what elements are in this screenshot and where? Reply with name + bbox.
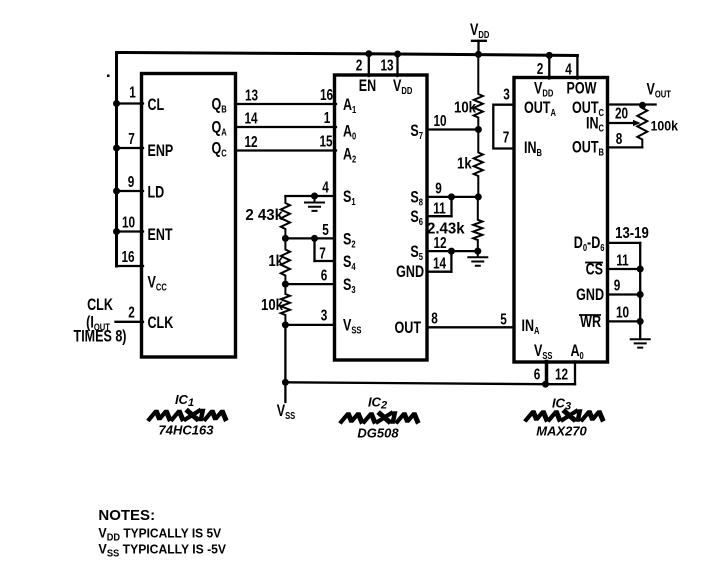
node dot rail at IC3 pin2	[546, 52, 553, 59]
label QA	[212, 119, 228, 138]
svg-text:15: 15	[319, 133, 332, 150]
pin number 3 (OUTA)	[503, 86, 510, 103]
svg-text:7: 7	[503, 129, 510, 146]
wire CS stub	[608, 268, 641, 270]
wire VDD top rail	[117, 53, 578, 56]
pin number 7 (INB)	[503, 129, 510, 146]
resistor 2.43k right	[473, 197, 482, 251]
pin number 6 (IC3 VSS)	[534, 366, 541, 383]
node dot rail at IC2 pin13	[394, 51, 401, 58]
terminal VOUT	[647, 81, 672, 100]
note VSS	[98, 542, 226, 560]
label VSS IC3	[534, 342, 553, 361]
resistor 10k right	[474, 55, 483, 130]
IC1 body 74HC163	[142, 74, 236, 358]
wire IC3 pin2 VDD stub	[548, 55, 550, 78]
wire IC2 pin7 box vertical	[313, 238, 315, 261]
wire IC1 pin7 ENP stub	[117, 147, 144, 149]
svg-text:CL: CL	[148, 96, 165, 114]
caption IC2	[368, 395, 387, 412]
notes heading	[98, 507, 155, 524]
svg-text:100k: 100k	[651, 118, 679, 134]
node dot S3 resistor junction	[282, 281, 289, 288]
svg-text:D0-D6: D0-D6	[574, 234, 605, 253]
label ENP	[148, 142, 174, 160]
wire IC2 S5 stub	[427, 250, 478, 252]
svg-text:7: 7	[128, 130, 135, 147]
svg-text:2.43k: 2.43k	[427, 220, 465, 237]
value 2.43k right	[427, 220, 465, 237]
pin number 1 (CL)	[129, 84, 136, 101]
label S6	[410, 208, 423, 227]
value 10k right	[454, 100, 477, 117]
caption IC3	[552, 396, 571, 413]
node dot S8 box junction	[448, 193, 455, 200]
svg-text:DG508: DG508	[357, 426, 399, 441]
svg-text:5: 5	[500, 311, 507, 328]
pin number 13 (QB left)	[245, 87, 258, 104]
svg-text:1k: 1k	[268, 253, 284, 270]
ground at right control bus	[630, 339, 651, 347]
wire right control bus	[639, 243, 641, 339]
pin number 9 (IC3 GND)	[614, 277, 621, 294]
pin number 9 (S8)	[435, 180, 442, 197]
wire IC2 pin11 box vertical	[450, 197, 452, 216]
pin number 10 (ENT)	[122, 214, 135, 231]
IC3 body MAX270	[514, 78, 608, 363]
wire IC3 pin6 VSS stub	[545, 362, 549, 385]
node dot rail at VDD terminal	[475, 51, 482, 58]
label VDD IC2	[393, 77, 413, 96]
node dot S8 resistor junction	[475, 193, 482, 200]
wire IC3 pin12 A0 box right vertical	[574, 362, 576, 385]
pin number 14 (IC2 GND)	[433, 255, 446, 272]
svg-text:2 43k: 2 43k	[245, 207, 283, 224]
svg-text:1: 1	[129, 84, 136, 101]
pin number 2 (IC3 VDD)	[537, 60, 544, 77]
svg-text:1: 1	[324, 109, 331, 126]
label INC	[586, 115, 605, 134]
ground below 2.43k right	[467, 251, 488, 266]
node dot S2 box junction	[311, 235, 318, 242]
wire IC1 pin16 VCC stub	[117, 265, 144, 267]
node dot LD bus	[113, 188, 120, 195]
label S8	[410, 189, 423, 208]
logo MAXIM IC1	[150, 411, 228, 419]
pin number 9 (LD)	[128, 173, 135, 190]
svg-text:12: 12	[244, 133, 257, 150]
svg-text:WR: WR	[580, 313, 601, 331]
svg-text:5: 5	[322, 221, 329, 238]
svg-text:4: 4	[322, 179, 329, 196]
label EN	[359, 77, 376, 95]
wire IC2 S2 stub	[285, 237, 334, 239]
wire IC2 pin13 VDD stub	[396, 54, 398, 76]
svg-text:CS: CS	[586, 261, 604, 279]
svg-text:GND: GND	[576, 286, 604, 304]
label S7	[410, 122, 423, 141]
label GND IC2	[396, 263, 424, 281]
wire WR stub	[608, 320, 641, 322]
node dot VSS rail at IC3 pin6	[542, 381, 549, 388]
value 10k left	[261, 297, 284, 314]
pin number 16 (VCC)	[121, 248, 134, 265]
wire OUT to INA	[427, 326, 514, 328]
wire VSS drop below resistors	[284, 325, 286, 402]
label CS with overline	[585, 261, 603, 279]
wire D0-D6 stub	[608, 242, 641, 244]
potentiometer wiper arrowhead	[633, 120, 641, 126]
label A1	[343, 96, 356, 115]
pin number 14 (QA left)	[244, 110, 257, 127]
node dot S1 ground junction	[311, 193, 318, 200]
wire IC2 S4 stub	[315, 260, 335, 262]
pin number 5 (S2)	[322, 221, 329, 238]
node dot VSS rail left	[282, 379, 289, 386]
wire IC2 S3 stub	[285, 283, 334, 285]
svg-text:14: 14	[244, 110, 257, 127]
label S4	[343, 253, 356, 272]
node dot S5 resistor junction	[474, 248, 481, 255]
label VSS IC2	[343, 317, 362, 336]
svg-text:EN: EN	[359, 77, 376, 95]
svg-text:13: 13	[245, 87, 258, 104]
pin number 10 (S7)	[433, 112, 446, 129]
svg-text:10k: 10k	[261, 297, 284, 314]
wire IC2 GND stub	[427, 271, 451, 273]
wire IC2 pin2 EN stub	[368, 54, 370, 76]
node dot bus at CS	[637, 266, 644, 273]
svg-text:13: 13	[380, 57, 393, 74]
label VCC	[148, 274, 168, 293]
caption 74HC163	[159, 423, 215, 438]
wire IC3 pin4 POW stub	[576, 56, 578, 79]
caption MAX270	[536, 424, 587, 439]
label OUTB	[572, 139, 604, 158]
speck	[107, 75, 110, 78]
svg-text:8: 8	[616, 130, 623, 147]
node dot S2 resistor junction	[282, 235, 289, 242]
wire IC1 pin10 ENT stub	[117, 230, 144, 232]
svg-text:10: 10	[616, 304, 629, 321]
pin numbers 13-19	[615, 225, 649, 242]
svg-text:10k: 10k	[454, 100, 477, 117]
pin number 4 (POW)	[565, 61, 572, 78]
svg-text:MAX270: MAX270	[536, 424, 587, 439]
node dot VSS resistor junction	[282, 321, 289, 328]
node dot OUTC pot junction	[639, 102, 646, 109]
node dot ENT bus	[113, 228, 120, 235]
svg-text:9: 9	[614, 277, 621, 294]
svg-text:3: 3	[503, 86, 510, 103]
pin number 8 (OUT)	[431, 310, 438, 327]
logo MAXIM IC2	[342, 414, 420, 422]
value 100k	[651, 118, 679, 134]
pin number 1 (A0 right)	[324, 109, 331, 126]
note VDD	[98, 526, 221, 544]
node dot bus at WR	[637, 318, 644, 325]
label GND IC3	[576, 286, 604, 304]
label CL	[148, 96, 165, 114]
svg-text:LD: LD	[148, 184, 165, 202]
value 1k right	[457, 156, 473, 173]
wire IC1 pin1 CL stub	[117, 102, 144, 104]
external CLK label	[74, 296, 127, 346]
pin number 11 (S6)	[433, 200, 446, 217]
pin number 2 (CLK)	[128, 304, 135, 321]
label A2	[343, 146, 356, 165]
svg-text:13-19: 13-19	[615, 225, 649, 242]
pin number 13 (IC2 VDD)	[380, 57, 393, 74]
svg-text:POW: POW	[567, 80, 597, 98]
IC2 body DG508	[335, 75, 428, 360]
wire INC to wiper	[608, 122, 635, 124]
wire IC2 S6 stub	[427, 215, 452, 217]
svg-text:2: 2	[128, 304, 135, 321]
value 2 43k left	[245, 207, 283, 224]
wire QC to A2	[236, 149, 337, 151]
label S2	[343, 231, 356, 250]
pin number 3 (IC2 VSS)	[321, 307, 328, 324]
svg-text:8: 8	[431, 310, 438, 327]
svg-text:4: 4	[565, 61, 572, 78]
wire IC2 pin14 box vertical	[450, 251, 452, 272]
wire QA to A0	[236, 126, 337, 128]
label OUTA	[524, 99, 556, 118]
label S5	[410, 243, 423, 262]
svg-text:1k: 1k	[457, 156, 473, 173]
svg-text:11: 11	[616, 252, 629, 269]
wire IC3 OUTA-INB bracket	[493, 105, 514, 149]
pin number 8 (OUTB)	[616, 130, 623, 147]
pin number 12 (A0 bottom)	[555, 366, 568, 383]
wire IC2 S7 stub	[427, 128, 479, 130]
svg-text:CLK: CLK	[148, 314, 174, 332]
wire GND stub	[608, 293, 641, 295]
pin number 5 (INA)	[500, 311, 507, 328]
label CLK inside	[148, 314, 174, 332]
wire OUTC output	[608, 103, 656, 105]
svg-text:12: 12	[555, 366, 568, 383]
svg-text:74HC163: 74HC163	[159, 423, 215, 438]
label POW	[567, 80, 597, 98]
label S3	[343, 276, 356, 295]
wire VDD terminal lead	[477, 41, 479, 55]
svg-text:ENP: ENP	[148, 142, 174, 160]
pin number 4 (S1)	[322, 179, 329, 196]
pin number 7 (ENP)	[128, 130, 135, 147]
caption IC1	[175, 392, 194, 409]
svg-text:2: 2	[356, 57, 363, 74]
value 1k left	[268, 253, 284, 270]
svg-text:10: 10	[433, 112, 446, 129]
label VDD IC3	[534, 80, 554, 99]
resistor 2.43k left	[281, 196, 290, 238]
wire QB to A1	[236, 103, 337, 105]
label A0 IC3	[571, 342, 584, 361]
svg-text:10: 10	[122, 214, 135, 231]
svg-text:6: 6	[321, 267, 328, 284]
svg-text:CLK: CLK	[87, 296, 113, 314]
pin number 10 (WR)	[616, 304, 629, 321]
pin number 12 (QC left)	[244, 133, 257, 150]
potentiometer 100k	[637, 106, 647, 148]
node dot ENP bus	[113, 145, 120, 152]
svg-text:16: 16	[320, 86, 333, 103]
svg-text:3: 3	[321, 307, 328, 324]
wire OUTB to pot bottom	[608, 146, 643, 148]
svg-text:GND: GND	[396, 263, 424, 281]
resistor 10k left	[281, 284, 290, 325]
svg-text:16: 16	[121, 248, 134, 265]
terminal VSS bottom	[277, 402, 296, 421]
svg-text:OUT: OUT	[395, 319, 421, 337]
pin number 6 (S3)	[321, 267, 328, 284]
caption DG508	[357, 426, 399, 441]
resistor 1k right	[474, 130, 483, 197]
wire VDD terminal tick	[472, 40, 486, 42]
wire IC2 S1 stub	[285, 195, 334, 197]
node dot rail at IC2 pin2	[365, 50, 372, 57]
label WR with overline	[579, 313, 601, 331]
pin number 20 (INC)	[615, 105, 628, 122]
label A0	[343, 123, 356, 142]
resistor 1k left	[281, 238, 290, 284]
svg-text:TIMES 8): TIMES 8)	[74, 328, 127, 346]
svg-text:ENT: ENT	[148, 226, 173, 244]
pin number 11 (CS)	[616, 252, 629, 269]
pin number 2 (EN)	[356, 57, 363, 74]
wire IC2 pin3 VSS stub	[285, 324, 334, 326]
pin number 16 (A1 right)	[320, 86, 333, 103]
node dot bus at GND	[637, 291, 644, 298]
ground at IC2 S1	[304, 196, 325, 211]
label D0-D6	[574, 234, 605, 253]
pin number 7 (S4)	[319, 245, 326, 262]
wire IC2 S8 stub	[427, 196, 479, 198]
logo MAXIM IC3	[527, 412, 605, 420]
svg-text:NOTES:: NOTES:	[98, 507, 155, 524]
svg-text:20: 20	[615, 105, 628, 122]
label OUT	[395, 319, 421, 337]
svg-text:7: 7	[319, 245, 326, 262]
node dot S5 box junction	[448, 248, 455, 255]
wire VSS bottom rail	[285, 382, 575, 384]
label QC	[212, 140, 228, 159]
node dot S7 10k junction	[475, 126, 482, 133]
wire IC1 pin9 LD stub	[117, 190, 144, 192]
pin number 12 (S5)	[433, 234, 446, 251]
terminal VDD top	[470, 21, 490, 40]
svg-text:11: 11	[433, 200, 446, 217]
label INB	[524, 139, 542, 158]
svg-text:9: 9	[128, 173, 135, 190]
svg-text:14: 14	[433, 255, 446, 272]
label S1	[343, 188, 356, 207]
node dot CL bus	[113, 100, 120, 107]
pin number 15 (A2 right)	[319, 133, 332, 150]
label ENT	[148, 226, 173, 244]
label INA	[522, 317, 541, 336]
svg-text:9: 9	[435, 180, 442, 197]
label OUTC	[572, 99, 604, 118]
wire left supply bus	[115, 53, 118, 267]
label QB	[212, 96, 227, 115]
wire IC1 pin2 CLK stub	[116, 321, 144, 323]
svg-text:6: 6	[534, 366, 541, 383]
label LD	[148, 184, 165, 202]
svg-text:2: 2	[537, 60, 544, 77]
